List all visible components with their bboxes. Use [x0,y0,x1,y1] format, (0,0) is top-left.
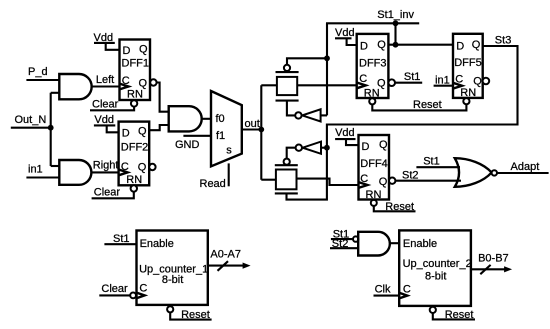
counter U3 Up_counter_2 [399,230,472,306]
AND gate G2 (Out_N, in1 -> Right) [59,160,91,185]
wire Vdd to DFF4 D [346,139,359,145]
counter1 C bubble [130,293,136,299]
counter U2 Up_counter_1 [137,231,209,305]
wire out to TG1 input [261,84,277,86]
bus B0-B7 arrow [471,265,512,274]
wire DFF2 Q to G3 input [149,125,169,130]
wire Vdd to DFF3 D [347,38,357,45]
mux U1 [211,91,242,166]
svg-text:Vdd: Vdd [94,114,114,126]
net label Clear (counter1) [101,283,128,295]
net label Clk [375,284,391,296]
net label P_d [28,66,48,78]
svg-text:Read: Read [200,178,226,190]
svg-text:Q: Q [138,126,147,138]
wire St1_inv to DFF3 Q net [394,23,396,44]
wire G3 out to mux f0 [202,118,211,120]
wire St1 to NOR input [416,166,460,168]
counter2 Reset bubble [430,307,436,313]
svg-text:Q: Q [139,44,148,56]
svg-text:St2: St2 [402,169,419,181]
svg-text:Clk: Clk [375,284,391,296]
wire INV1 input [321,114,327,116]
net label in1 (DFF5 clock) [435,74,450,86]
net label St1 (counter1 enable) [113,233,130,245]
pin DFF1 QN bubble [150,79,156,85]
ground label GND [175,139,200,151]
wire Clear to DFF1 RN [90,107,134,111]
wire Clear to counter1 C [99,294,130,296]
AND gate G1 (P_d, Out_N -> Left) [59,74,91,99]
node St1_inv top junction [393,20,399,26]
node St3 net junction [324,145,330,151]
inverter INV2 [296,142,321,154]
svg-text:Clear: Clear [101,283,128,295]
power symbol Vdd (DFF1) [94,32,115,44]
pin DFF3 QN bubble [388,79,395,86]
svg-text:St1: St1 [423,156,440,168]
wire Clk to counter2 C [374,295,400,297]
svg-text:f1: f1 [216,130,225,142]
wire mux out [242,128,261,130]
svg-text:Vdd: Vdd [335,127,355,139]
node DFF3 Q junction [393,42,399,48]
pin DFF4 QN bubble [389,178,395,184]
wire in1 [26,176,59,178]
wire Out_N vertical branch [51,93,60,166]
transmission gate TG1 [276,72,299,101]
svg-text:D: D [122,128,130,140]
wire St1 (DFF3 QN) [395,82,422,84]
net label Clear (DFF2) [94,187,121,199]
svg-text:Q: Q [379,176,388,188]
pin DFF4 RN bubble [371,200,377,206]
pin DFF5 QN bubble [483,78,490,85]
pin DFF1 RN bubble [131,100,137,106]
wire Reset (counter1) [170,312,211,319]
wire St3 net (DFF5 Q to TG2 bottom gate) [287,46,518,200]
wire TG1 top gate to St1_inv [287,58,327,65]
power symbol Vdd (DFF3) [335,27,355,39]
wire INV2 out to TG2 top gate [287,148,296,159]
svg-text:s: s [226,145,232,157]
net label Left [96,74,114,86]
AND gate G3 (DFF1 QN, DFF2 Q -> f0) [169,106,202,131]
svg-text:8-bit: 8-bit [162,274,183,286]
net label Read [200,178,226,190]
wire DFF3 Q to DFF5 D [388,44,453,46]
wire G4 out to counter2 Enable [390,242,399,244]
svg-text:Q: Q [138,162,147,174]
flip-flop DFF1 [120,40,151,101]
svg-text:Q: Q [473,75,482,87]
net label Clear (DFF1) [92,99,119,111]
wire out vertical [260,85,262,179]
NOR gate G5 (St1, St2 -> Adapt) [455,158,497,187]
wire St2 (DFF4 QN to NOR input) [395,180,461,182]
svg-text:Adapt: Adapt [511,161,540,173]
net label St1_inv [377,9,414,21]
net label Right [93,160,119,172]
wire Left (G1 out to DFF1 C) [92,85,120,87]
svg-text:Clear: Clear [92,99,119,111]
pin DFF5 RN bubble [463,98,469,104]
svg-text:D: D [123,45,131,57]
wire Out_N [11,127,51,129]
net label Out_N [15,114,47,126]
wire Vdd to DFF1 D [106,43,120,50]
svg-text:DFF3: DFF3 [359,57,387,69]
AND gate G4 (St1 inverted, St2 -> Enable) [358,232,390,256]
TG1 top gate bubble [284,65,290,71]
svg-text:Reset: Reset [413,99,442,111]
net label St1 (NOR input) [423,156,440,168]
wire Adapt [497,172,549,174]
svg-text:A0-A7: A0-A7 [210,249,241,261]
svg-text:Right: Right [93,160,119,172]
flip-flop DFF4 [359,135,390,201]
net label St1 [404,71,421,83]
net label Reset (top) [413,99,442,111]
pin DFF2 QN bubble [149,164,155,170]
net label Reset (DFF4) [385,201,414,213]
net label St3 [495,34,512,46]
svg-text:Up_counter_2: Up_counter_2 [403,258,472,270]
svg-text:Reset: Reset [181,309,210,321]
node St1_inv tee junction [324,55,330,61]
wire TG2 out to DFF4 C [297,179,359,185]
svg-text:St1: St1 [404,71,421,83]
inverter INV1 [295,109,320,121]
power symbol Vdd (DFF4) [335,127,355,139]
flip-flop DFF3 [357,34,389,100]
wire Vdd to DFF2 D [107,125,119,132]
wire St1_inv vertical [326,23,328,115]
net label Adapt [511,161,540,173]
svg-text:Left: Left [96,74,114,86]
wire Reset (DFF3 RN to DFF5 RN) [372,104,466,110]
svg-text:in1: in1 [435,74,450,86]
TG2 top gate bubble [284,159,290,165]
wire St1 to counter1 Enable [104,243,136,245]
svg-text:Enable: Enable [403,238,437,250]
net label St2 [402,169,419,181]
svg-text:D: D [362,141,370,153]
net label in1 [28,164,43,176]
flip-flop DFF2 [119,122,150,187]
svg-text:RN: RN [460,87,476,99]
wire Right (G2 out to DFF2 C) [91,171,118,173]
svg-text:DFF1: DFF1 [122,58,150,70]
svg-text:B0-B7: B0-B7 [478,252,509,264]
svg-text:8-bit: 8-bit [425,271,446,283]
net label St1 (G4 input) [333,229,350,241]
svg-text:Reset: Reset [445,309,474,321]
pin DFF3 RN bubble [369,98,375,104]
svg-text:GND: GND [175,139,200,151]
svg-text:P_d: P_d [28,66,48,78]
wire out to TG2 input [261,179,276,181]
svg-text:Reset: Reset [385,201,414,213]
wire in1 to DFF5 C [434,85,453,87]
net label A0-A7 [210,249,241,261]
G4 input bubble [353,236,358,241]
net label B0-B7 [478,252,509,264]
svg-text:Q: Q [377,39,386,51]
net label Reset (counter2) [445,309,474,321]
power symbol Vdd (DFF2) [94,114,115,126]
wire P_d [26,79,59,81]
wire Reset (counter2) [433,313,475,319]
wire TG1 out to DFF3 C [297,84,357,86]
bus A0-A7 arrow [208,261,251,271]
svg-text:RN: RN [127,89,143,101]
wire DFF1 QN to G3 input [157,83,169,112]
wire St2 to G4 [330,247,358,249]
counter1 Reset bubble [167,306,173,312]
node out junction [258,127,264,133]
wire St1_inv horizontal [326,22,419,24]
svg-text:D: D [360,41,368,53]
net label Reset (counter1) [181,309,210,321]
svg-text:Clear: Clear [94,187,121,199]
svg-text:DFF4: DFF4 [360,158,388,170]
svg-text:Enable: Enable [140,238,174,250]
svg-text:DFF2: DFF2 [121,141,149,153]
wire Reset (DFF4) [374,206,416,211]
svg-text:Q: Q [472,39,481,51]
wire GND to mux f1 [183,135,211,137]
wire Read to mux s [228,163,230,186]
flip-flop DFF5 [453,34,483,99]
transmission gate TG2 [275,165,298,193]
net label out [245,118,260,130]
node Out_N junction [48,125,54,131]
pin DFF2 RN bubble [131,185,137,191]
svg-text:in1: in1 [28,164,43,176]
wire TG1 bottom gate to INV1 out [287,101,295,116]
svg-text:DFF5: DFF5 [454,57,482,69]
net label St2 (G4 input) [332,238,349,250]
svg-text:Q: Q [379,139,388,151]
svg-text:f0: f0 [216,113,225,125]
wire Clear to DFF2 RN [92,192,134,199]
svg-text:D: D [456,41,464,53]
svg-text:Out_N: Out_N [15,114,47,126]
wire St1 to G4 bubble [331,238,353,240]
wire INV2 input [321,147,327,149]
svg-text:St1_inv: St1_inv [377,9,414,21]
svg-text:St3: St3 [495,34,512,46]
svg-text:out: out [245,118,260,130]
